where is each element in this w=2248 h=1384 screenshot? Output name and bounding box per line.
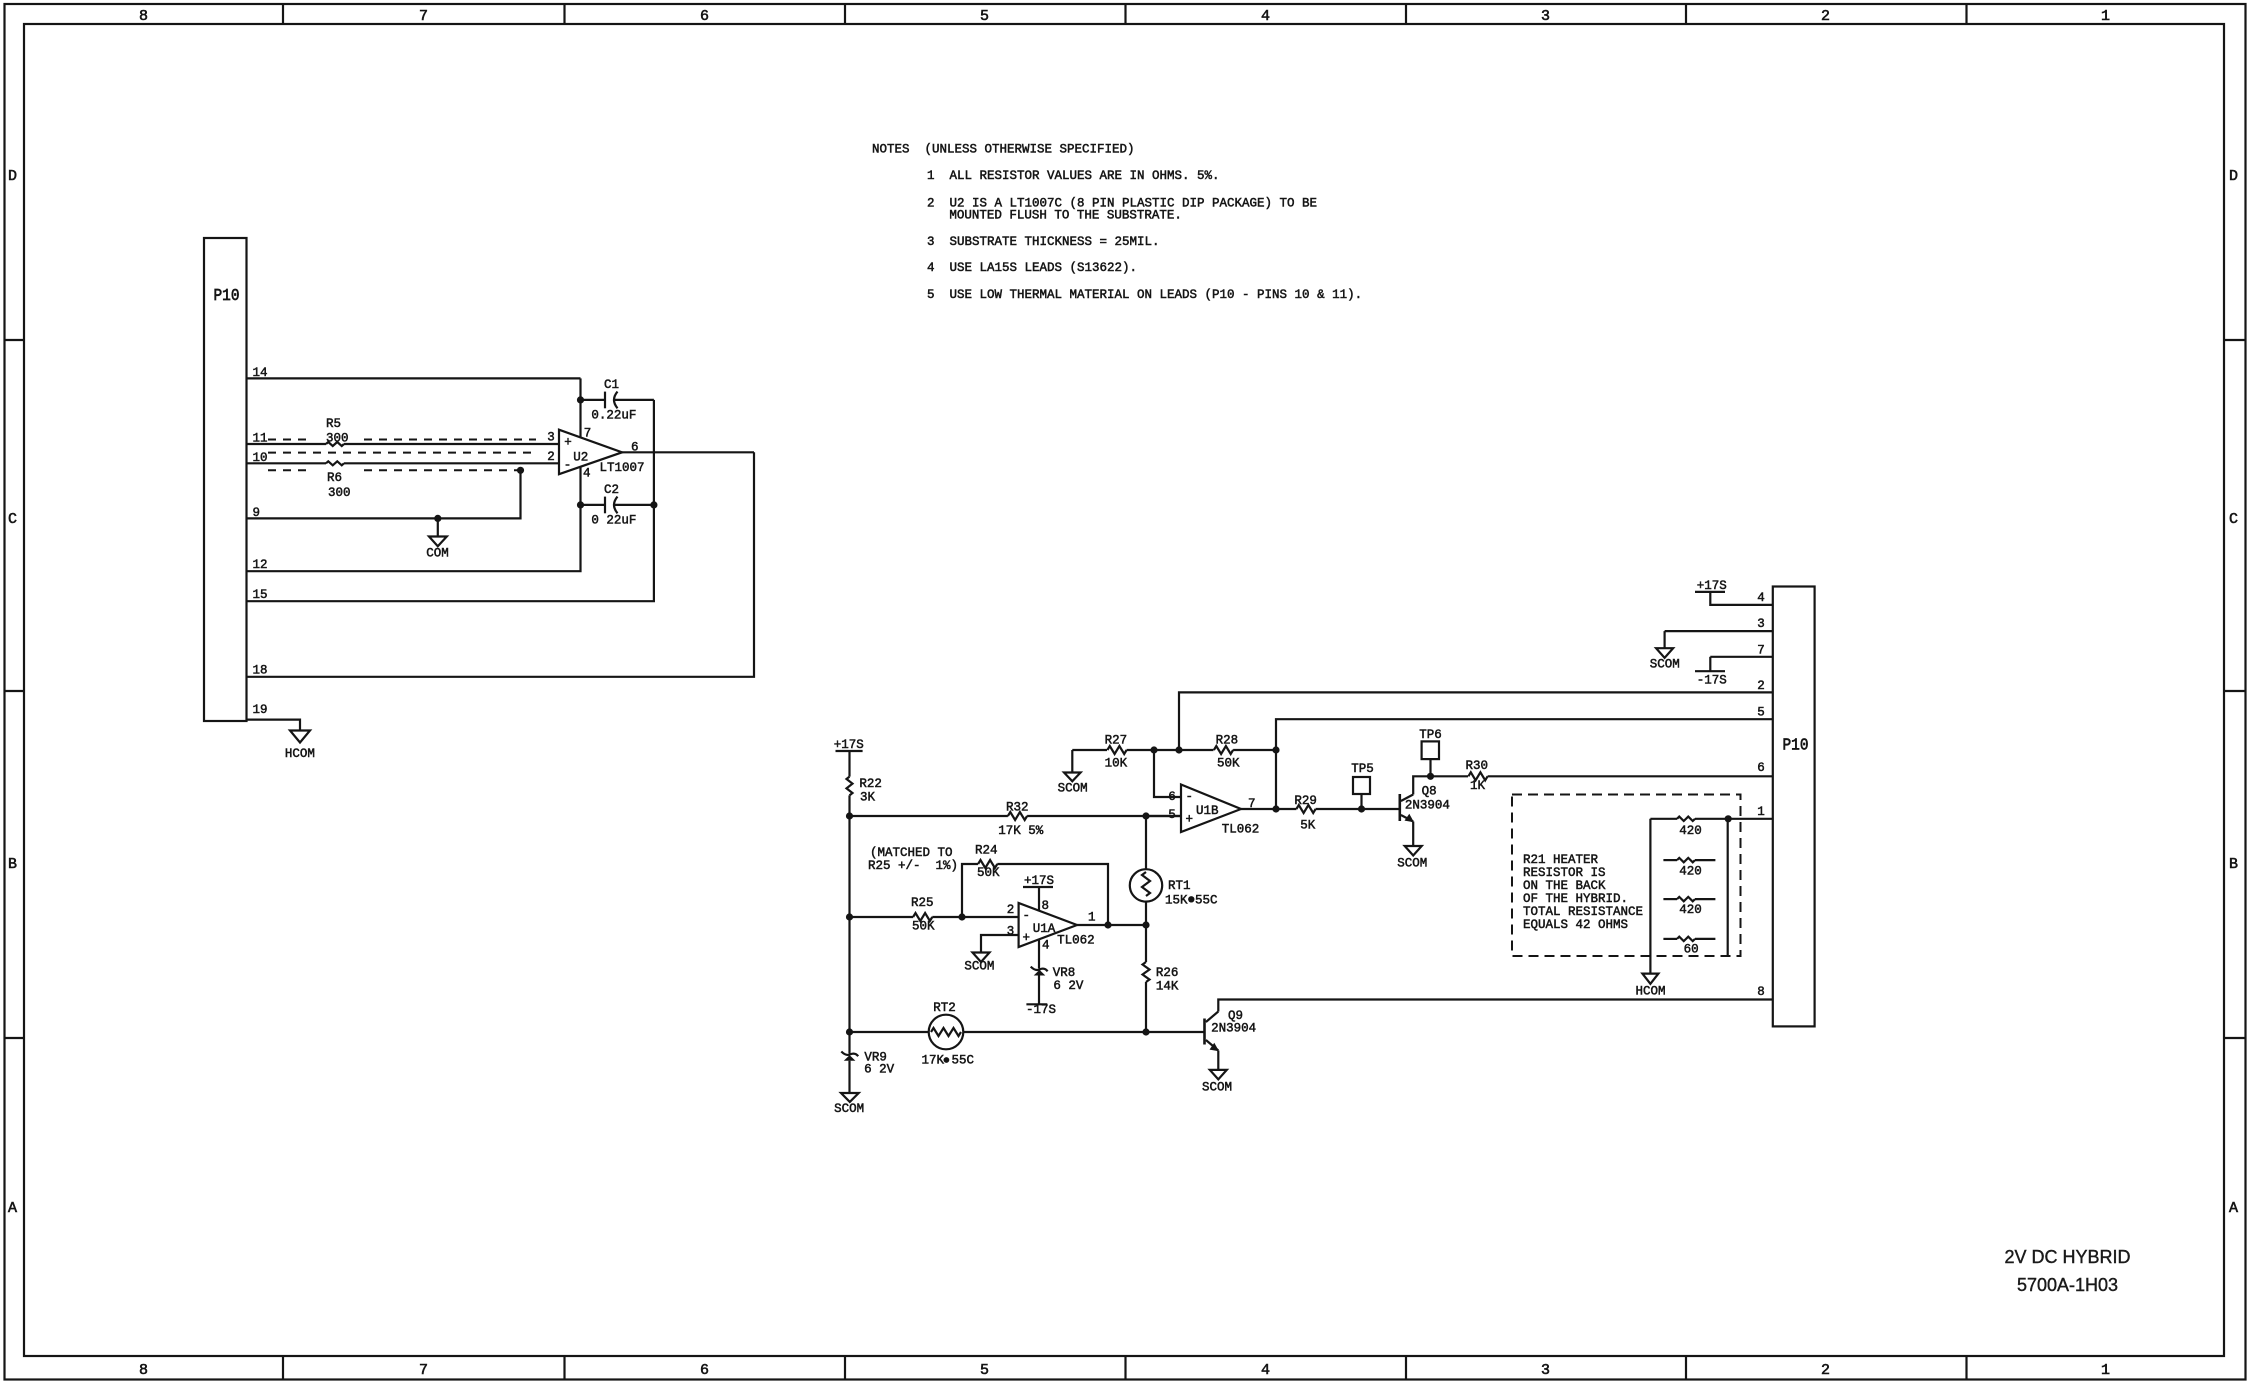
svg-text:LT1007: LT1007 [600,461,645,475]
resistor R29 [1294,794,1398,833]
svg-text:C: C [8,511,17,528]
svg-text:HCOM: HCOM [285,747,315,761]
ground SCOM at Q9 [1202,1070,1232,1095]
wire heater to P10 pin 1 [1728,818,1773,820]
wire pin 19 [247,720,301,731]
+17S at P10 pin 4 [1695,579,1773,605]
svg-text:R6: R6 [327,471,342,485]
svg-text:B: B [2229,856,2238,873]
svg-text:4: 4 [1042,939,1050,953]
wire top line to P10 pin 2 [1179,692,1773,750]
svg-text:3: 3 [547,431,555,445]
junction rail/R32 [846,812,853,819]
svg-text:SCOM: SCOM [1650,658,1680,672]
wire second line to P10 pin 5 [1276,719,1773,809]
U1B pin6 riser [1154,750,1181,797]
resistor R26 [1143,925,1179,1032]
U1B pin5 input [1146,815,1181,817]
svg-text:C1: C1 [604,378,619,392]
op-amp U1B [1168,785,1259,837]
wire R5 to op-amp pin3 [344,443,559,445]
junction R28/pin5 riser [1272,746,1279,753]
U1B output wire [1241,808,1296,810]
op-amp U2 [547,427,644,481]
U1A pin3 to SCOM [964,935,1018,974]
transistor Q8 2N3904 [1400,776,1450,846]
svg-text:RT2: RT2 [933,1001,956,1015]
svg-text:SCOM: SCOM [1397,857,1427,871]
wire pin 10 [247,462,327,464]
svg-text:R25 +/- 1%): R25 +/- 1%) [868,859,958,873]
svg-text:P10: P10 [1783,737,1809,756]
svg-text:4: 4 [583,466,591,480]
shield dashed line middle [268,452,533,454]
svg-text:D: D [8,168,17,185]
svg-text:SCOM: SCOM [1058,782,1088,796]
svg-text:4: 4 [1757,591,1765,605]
svg-text:5: 5 [1168,808,1176,822]
svg-text:5700A-1H03: 5700A-1H03 [2017,1275,2118,1295]
svg-text:2: 2 [1757,679,1765,693]
resistor R28 [1214,734,1276,771]
junction C2 left [577,501,584,508]
shield dashed line lower [268,469,521,471]
svg-text:U2: U2 [573,451,588,465]
svg-text:TL062: TL062 [1222,823,1260,837]
svg-text:5: 5 [1757,705,1765,719]
junction TP6/collector [1427,773,1434,780]
svg-text:420: 420 [1679,824,1702,838]
svg-text:TP5: TP5 [1351,762,1374,776]
svg-text:6: 6 [1168,790,1176,804]
svg-text:2: 2 [1821,1362,1830,1379]
svg-text:6 2V: 6 2V [1053,979,1084,993]
svg-text:3: 3 [1541,8,1550,25]
output wire pin 6 [622,451,754,453]
svg-text:R22: R22 [859,777,882,791]
svg-text:EQUALS 42 OHMS: EQUALS 42 OHMS [1523,918,1628,932]
junction R28 riser/output [1272,805,1279,812]
svg-text:-17S: -17S [1697,674,1727,688]
wire pin 11 [247,443,327,445]
resistor R24 feedback [962,844,1108,926]
svg-text:R29: R29 [1294,794,1317,808]
resistor R22 [847,777,882,805]
wire pin14 to op-amp V+ [247,377,581,379]
svg-text:3 SUBSTRATE THICKNESS = 25MIL: 3 SUBSTRATE THICKNESS = 25MIL. [927,235,1160,249]
svg-text:8: 8 [1757,985,1765,999]
zener VR8 [1031,940,1084,1004]
svg-text:MOUNTED FLUSH TO THE SUBSTRATE: MOUNTED FLUSH TO THE SUBSTRATE. [949,209,1182,223]
svg-text:HCOM: HCOM [1636,985,1666,999]
svg-text:18: 18 [253,664,268,678]
svg-text:TOTAL RESISTANCE: TOTAL RESISTANCE [1523,905,1643,919]
svg-text:6: 6 [700,8,709,25]
svg-text:4 USE LA15S LEADS (S13622).: 4 USE LA15S LEADS (S13622). [927,261,1137,275]
svg-text:2N3904: 2N3904 [1405,799,1450,813]
svg-text:P10: P10 [214,287,240,306]
junction R32/RT1 [1142,812,1149,819]
svg-text:U1B: U1B [1196,804,1219,818]
-17S at P10 pin 7 [1695,644,1773,688]
wire pin12 to op-amp V- [247,467,581,571]
svg-text:420: 420 [1679,903,1702,917]
SCOM at P10 pin 3 [1650,617,1773,671]
svg-text:10K: 10K [1105,757,1128,771]
svg-text:17K 5%: 17K 5% [998,824,1044,838]
matched note [868,846,958,873]
junction R25/R24 [958,913,965,920]
svg-text:1: 1 [1088,911,1096,925]
test point TP6 [1419,728,1442,776]
junction TP5/output [1358,805,1365,812]
ground HCOM [285,731,315,762]
svg-text:R26: R26 [1156,966,1179,980]
svg-text:R30: R30 [1466,759,1489,773]
svg-text:B: B [8,856,17,873]
ground SCOM below VR9 [834,1093,864,1116]
R21 note text [1523,853,1643,932]
svg-text:1: 1 [2101,8,2110,25]
svg-text:4: 4 [1261,8,1270,25]
wire R6 to op-amp pin2 [344,462,559,464]
wire to R28 [1154,749,1214,751]
op-amp U1A [1007,899,1096,953]
svg-text:RESISTOR IS: RESISTOR IS [1523,866,1606,880]
svg-text:1: 1 [1757,805,1765,819]
left supply rail [848,795,850,1053]
title text 2V DC HYBRID / 5700A-1H03 [2004,1247,2130,1295]
resistor R30 [1431,759,1773,793]
svg-text:0 22uF: 0 22uF [591,514,636,528]
wire pin18 to op-amp output [247,452,755,677]
+17S supply left [834,738,864,777]
heater resistor 420 row1 [1650,817,1728,838]
junction rail/RT2 [846,1028,853,1035]
svg-text:SCOM: SCOM [1202,1081,1232,1095]
svg-text:NOTES (UNLESS OTHERWISE SPECI: NOTES (UNLESS OTHERWISE SPECIFIED) [872,143,1135,157]
svg-text:Q8: Q8 [1422,785,1437,799]
svg-text:2V DC HYBRID: 2V DC HYBRID [2004,1247,2130,1267]
svg-text:5K: 5K [1300,819,1316,833]
resistor R25 [850,896,1019,934]
zener VR9 [841,1050,894,1093]
svg-text:ON THE BACK: ON THE BACK [1523,879,1606,893]
resistor R6 [326,461,351,500]
junction C1 left [577,396,584,403]
wire pin 9 up to inverting input node [247,470,521,518]
svg-text:50K: 50K [912,920,935,934]
svg-text:50K: 50K [977,866,1000,880]
svg-text:3: 3 [1007,924,1015,938]
svg-text:300: 300 [328,486,351,500]
svg-text:A: A [8,1200,17,1217]
svg-text:RT1: RT1 [1168,879,1191,893]
svg-text:1 ALL RESISTOR VALUES ARE IN: 1 ALL RESISTOR VALUES ARE IN OHMS. 5%. [927,169,1220,183]
svg-text:1K: 1K [1470,779,1486,793]
svg-text:5 USE LOW THERMAL MATERIAL ON: 5 USE LOW THERMAL MATERIAL ON LEADS (P10… [927,288,1362,302]
svg-text:6 2V: 6 2V [864,1063,895,1077]
svg-text:U1A: U1A [1033,922,1056,936]
ground SCOM at R27 [1058,750,1088,796]
svg-text:A: A [2229,1200,2238,1217]
svg-text:19: 19 [253,703,268,717]
svg-text:2: 2 [1821,8,1830,25]
-17S below VR8 [1026,1003,1056,1017]
junction heater/pin1 wire [1725,815,1732,822]
svg-text:420: 420 [1679,865,1702,879]
svg-text:VR8: VR8 [1053,966,1076,980]
svg-text:-17S: -17S [1026,1003,1056,1017]
connector P10 (right) [1773,587,1815,1027]
svg-text:SCOM: SCOM [834,1102,864,1116]
svg-text:60: 60 [1684,943,1699,957]
svg-text:6: 6 [1757,761,1765,775]
svg-text:3: 3 [1541,1362,1550,1379]
svg-text:(MATCHED TO: (MATCHED TO [870,846,953,860]
svg-text:TL062: TL062 [1057,934,1095,948]
svg-text:TP6: TP6 [1419,728,1442,742]
thermistor RT1 [1130,816,1218,925]
svg-text:C: C [2229,511,2238,528]
svg-text:7: 7 [584,427,592,441]
dashed box R21 note [1512,795,1741,957]
svg-text:-: - [1023,909,1031,923]
connector P10 (left) [204,238,247,721]
svg-text:R5: R5 [326,417,341,431]
svg-text:50K: 50K [1217,757,1240,771]
svg-text:4: 4 [1261,1362,1270,1379]
svg-text:8: 8 [1042,899,1050,913]
U1A output wire [1077,924,1146,926]
svg-text:2: 2 [547,450,555,464]
svg-text:7: 7 [419,1362,428,1379]
svg-text:OF THE HYBRID.: OF THE HYBRID. [1523,892,1628,906]
capacitor C1 [581,378,654,423]
svg-text:COM: COM [426,547,449,561]
heater resistor 420 row2 [1663,858,1715,879]
test point TP5 [1351,762,1374,809]
svg-text:7: 7 [419,8,428,25]
junction pin9/COM [434,515,441,522]
svg-text:R24: R24 [975,844,998,858]
junction R27/U1B pin6 riser [1150,746,1157,753]
svg-text:R27: R27 [1105,734,1128,748]
junction pin9 riser on pin10 wire [517,467,524,474]
svg-text:8: 8 [139,1362,148,1379]
svg-text:D: D [2229,168,2238,185]
svg-text:R25: R25 [911,896,934,910]
svg-text:2N3904: 2N3904 [1211,1022,1256,1036]
svg-text:3: 3 [1757,617,1765,631]
svg-text:0.22uF: 0.22uF [591,409,636,423]
shield dashed line upper [268,439,536,441]
resistor R5 [326,417,349,446]
svg-text:15: 15 [253,588,268,602]
svg-text:6: 6 [700,1362,709,1379]
svg-text:-: - [1186,790,1194,804]
svg-text:R21 HEATER: R21 HEATER [1523,853,1599,867]
svg-text:+: + [564,436,572,450]
resistor R27 [1072,734,1154,771]
svg-text:R32: R32 [1006,801,1029,815]
ground SCOM at Q8 [1397,846,1427,871]
wire pin15 to C1/C2 right rail [247,400,654,601]
+17S above U1A [1023,874,1054,912]
svg-text:3K: 3K [860,791,876,805]
resistor R32 [850,801,1182,839]
heater resistor 420 row3 [1663,897,1715,917]
junction output/RT1 [1142,921,1149,928]
junction rail/R25 [846,913,853,920]
V+ stub into op-amp [579,378,581,437]
notes text [872,143,1362,302]
junction R24/output [1104,921,1111,928]
svg-text:+: + [1023,931,1031,945]
svg-text:-: - [564,458,572,472]
heater resistor 60 row4 [1663,937,1715,957]
junction C2 right [650,501,657,508]
svg-text:SCOM: SCOM [964,960,994,974]
heater left rail [1649,819,1651,974]
heater right rail [1727,819,1729,956]
thermistor RT2 [850,1001,1204,1067]
svg-text:5: 5 [980,8,989,25]
ground HCOM heater [1636,974,1666,999]
transistor Q9 2N3904 [1205,1000,1773,1070]
svg-text:R28: R28 [1216,734,1239,748]
svg-text:C2: C2 [604,483,619,497]
svg-text:7: 7 [1757,644,1765,658]
svg-text:1: 1 [2101,1362,2110,1379]
svg-text:+: + [1186,813,1194,827]
junction RT2 line/R26 [1142,1028,1149,1035]
capacitor C2 [581,483,654,528]
ground COM [426,518,449,560]
svg-text:14K: 14K [1156,980,1179,994]
junction top line riser [1175,746,1182,753]
svg-text:2: 2 [1007,903,1015,917]
svg-text:5: 5 [980,1362,989,1379]
svg-text:8: 8 [139,8,148,25]
